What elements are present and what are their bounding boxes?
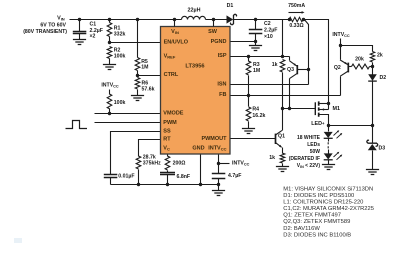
svg-text:1k: 1k	[272, 62, 278, 68]
capacitor C1 2.2uF x2	[73, 20, 103, 40]
wire LED rail	[329, 125, 373, 127]
svg-text:18 WHITE: 18 WHITE	[297, 135, 321, 141]
capacitor 6.8nF VC	[160, 173, 190, 185]
wire RT	[139, 140, 161, 157]
svg-text:×2: ×2	[90, 34, 96, 40]
svg-text:D3: D3	[379, 145, 386, 151]
node junction dot C2	[254, 18, 257, 21]
svg-text:VIN: VIN	[57, 15, 65, 21]
svg-text:INTVCC: INTVCC	[332, 32, 350, 38]
svg-text:750mA: 750mA	[288, 3, 305, 9]
transistor Q2 FMMT589	[334, 46, 352, 77]
pin RT label	[163, 137, 171, 143]
wire LED dashed	[327, 139, 329, 154]
svg-text:LT3956: LT3956	[185, 63, 204, 69]
svg-text:332k: 332k	[114, 31, 126, 37]
ground R4	[242, 129, 255, 134]
svg-text:(80V TRANSIENT): (80V TRANSIENT)	[23, 29, 67, 35]
svg-text:Q2,Q3: ZETEX FMMT589: Q2,Q3: ZETEX FMMT589	[283, 219, 350, 225]
wire VC pin stub	[167, 155, 169, 157]
svg-text:VIN: VIN	[171, 29, 179, 35]
ground R6	[131, 96, 144, 101]
ground LED string	[322, 160, 335, 170]
wire INTVCC stub label	[219, 160, 250, 166]
svg-text:INTVCC: INTVCC	[232, 160, 250, 166]
node junction dot INTVCC Q2	[339, 44, 342, 47]
node junction dot R5 rail	[136, 18, 139, 21]
wire INTVCC pin down	[218, 155, 220, 164]
svg-text:C1,C2: MURATA GRM42-2X7R225: C1,C2: MURATA GRM42-2X7R225	[283, 206, 374, 212]
svg-text:2.2µF: 2.2µF	[264, 28, 277, 34]
node junction dot R3-R4 FB	[247, 94, 250, 97]
svg-text:100k: 100k	[114, 54, 126, 60]
svg-text:LED+: LED+	[311, 120, 325, 127]
svg-text:Q1: ZETEX FMMT497: Q1: ZETEX FMMT497	[283, 213, 341, 219]
wire SW pin top	[213, 20, 215, 27]
op-amp U1 LT3956 block	[161, 27, 231, 155]
svg-text:16.2k: 16.2k	[252, 113, 265, 119]
svg-text:ISN: ISN	[217, 81, 226, 87]
resistor R1 332k	[107, 20, 125, 43]
pin CTRL label	[164, 72, 179, 78]
node junction dot gate rail Q3	[288, 107, 291, 110]
ground C2	[249, 42, 262, 51]
ground C1	[73, 40, 86, 45]
svg-text:50W: 50W	[310, 149, 321, 155]
pin PWM label	[163, 120, 177, 126]
svg-text:100k: 100k	[114, 100, 126, 106]
node junction dot SW pin	[212, 18, 215, 21]
svg-text:SS: SS	[163, 128, 171, 134]
svg-text:C2: C2	[264, 21, 271, 27]
resistor R5 1M	[135, 20, 148, 76]
svg-text:VMODE: VMODE	[163, 111, 184, 117]
svg-text:M1: M1	[333, 106, 341, 112]
svg-text:GND: GND	[192, 145, 204, 151]
node junction dot R1 top	[108, 18, 111, 21]
node junction dot M1 source	[327, 102, 330, 105]
svg-text:1k: 1k	[269, 155, 275, 161]
pin ISP label	[218, 53, 227, 59]
svg-text:LEDs: LEDs	[307, 142, 320, 148]
wire EN/UVLO	[110, 42, 161, 44]
node junction dot VIN pin	[173, 18, 176, 21]
resistor 0.33ohm sense	[289, 17, 304, 29]
svg-text:Q3: Q3	[287, 67, 294, 73]
wire GND pin	[200, 155, 202, 185]
wire sense right to M1 source	[304, 20, 329, 110]
pin SS label	[163, 128, 171, 134]
node junction dot 4.7uF gnd rail	[217, 183, 220, 186]
node junction dot VC gnd rail	[166, 183, 169, 186]
wire ISN	[231, 84, 309, 86]
svg-text:ISP: ISP	[218, 53, 227, 59]
svg-text:(DERATED IF: (DERATED IF	[289, 156, 320, 162]
ground R2	[103, 65, 116, 70]
svg-text:×10: ×10	[264, 34, 273, 40]
diode D3 B1100 schottky	[367, 126, 385, 170]
svg-text:PWMOUT: PWMOUT	[201, 136, 227, 142]
wire sense left down	[283, 20, 290, 57]
node junction dot 2k 20k D2	[371, 65, 374, 68]
resistor R6 57.6k	[135, 78, 154, 96]
resistor 2k	[370, 52, 383, 67]
pin VREF label	[164, 54, 176, 60]
inductor L1 22uH	[182, 7, 206, 19]
wire ISN riser	[304, 19, 309, 85]
svg-text:1M: 1M	[253, 68, 260, 74]
node junction dot EN divider	[108, 41, 111, 44]
svg-text:2k: 2k	[377, 52, 383, 58]
svg-text:L1: COILTRONICS DR125-220: L1: COILTRONICS DR125-220	[283, 200, 363, 206]
wire M1 gate rail	[283, 108, 316, 110]
svg-text:C1: C1	[90, 22, 97, 28]
label notes list	[283, 187, 374, 239]
svg-text:D2: D2	[380, 75, 387, 81]
wire VIN rail	[70, 19, 182, 21]
wire D2 to LED rail	[372, 82, 374, 126]
svg-text:Q1: Q1	[278, 134, 285, 140]
pin VC label	[163, 145, 170, 151]
svg-text:FB: FB	[219, 92, 226, 98]
svg-text:VC: VC	[163, 145, 170, 151]
node INTVCC top right label	[332, 32, 350, 38]
wire ISP	[231, 56, 290, 58]
svg-text:INTVCC: INTVCC	[101, 82, 119, 88]
resistor 20k	[352, 56, 373, 69]
pin ISN label	[217, 81, 226, 87]
wire PWM input	[95, 122, 161, 124]
transistor M1 PMOS	[315, 101, 340, 125]
label LT3956	[185, 63, 204, 69]
svg-text:375kHz: 375kHz	[143, 160, 161, 166]
pin INTVCC bottom label	[208, 145, 226, 151]
transistor Q3 FMMT589	[287, 57, 308, 109]
svg-text:Q2: Q2	[334, 65, 341, 71]
led LED2	[324, 152, 343, 160]
svg-text:R4: R4	[252, 107, 259, 113]
svg-text:D2: BAV116W: D2: BAV116W	[283, 226, 320, 232]
wire CTRL	[138, 75, 161, 77]
pin PGND label	[211, 39, 227, 45]
svg-text:SW: SW	[208, 29, 218, 35]
pin EN/UVLO label	[164, 39, 189, 45]
pin GND label	[192, 145, 204, 151]
node junction dot RT gnd rail	[137, 183, 140, 186]
node junction dot D3 top	[371, 124, 374, 127]
svg-text:VREF: VREF	[164, 54, 176, 60]
svg-text:0.33Ω: 0.33Ω	[289, 23, 303, 29]
resistor R3 1M	[246, 57, 260, 96]
resistor 1k gate pullup	[272, 60, 285, 109]
node LED+ label	[311, 120, 325, 127]
svg-text:VIN < 22V): VIN < 22V)	[297, 163, 321, 169]
wire D1 to sense	[234, 19, 290, 21]
svg-text:RT: RT	[163, 137, 171, 143]
svg-text:PWM: PWM	[163, 120, 177, 126]
svg-text:0.01µF: 0.01µF	[118, 174, 134, 180]
svg-text:R3: R3	[253, 62, 260, 68]
svg-text:20k: 20k	[355, 56, 364, 62]
pin VMODE label	[163, 111, 184, 117]
diode D1 schottky	[227, 3, 237, 25]
svg-text:EN/UVLO: EN/UVLO	[164, 39, 189, 45]
pin SW label	[208, 29, 218, 35]
ground D3	[366, 170, 379, 175]
wire VIN pin top	[174, 20, 176, 27]
svg-text:57.6k: 57.6k	[142, 86, 155, 92]
node junction dot VMODE	[108, 112, 111, 115]
node junction dot sense left	[288, 18, 291, 21]
svg-text:D1: D1	[227, 3, 234, 9]
wire SS	[111, 132, 161, 175]
resistor 200ohm VC	[165, 156, 185, 173]
svg-text:4.7µF: 4.7µF	[228, 173, 241, 179]
node INTVCC pullup label	[101, 82, 119, 88]
wire PWMOUT	[231, 138, 276, 140]
svg-text:INTVCC: INTVCC	[208, 145, 226, 151]
node junction dot gate rail 1k	[281, 107, 284, 110]
svg-text:22µH: 22µH	[188, 7, 201, 13]
node PWM pulse symbol	[66, 121, 88, 129]
wire INTVCC stub down	[340, 39, 342, 46]
wire inductor to D1	[206, 19, 227, 21]
svg-text:PGND: PGND	[211, 39, 227, 45]
ground Q1 1k	[276, 167, 289, 172]
ground bottom rail	[212, 185, 225, 196]
node junction dot INTVCC cap	[217, 162, 220, 165]
node junction dot Q3 base	[307, 68, 310, 71]
svg-text:1M: 1M	[141, 65, 148, 71]
svg-text:D3: DIODES INC B1100/B: D3: DIODES INC B1100/B	[283, 232, 351, 238]
resistor R4 16.2k	[246, 96, 265, 129]
svg-text:CTRL: CTRL	[164, 72, 179, 78]
svg-text:6.8nF: 6.8nF	[177, 174, 191, 180]
capacitor 4.7uF INTVCC	[212, 164, 242, 185]
capacitor C2 2.2uF x10	[249, 20, 278, 42]
capacitor 0.01uF SS	[104, 174, 135, 185]
svg-text:M1: VISHAY SILICONIX Si7113DN: M1: VISHAY SILICONIX Si7113DN	[283, 187, 373, 193]
diode D2 BAV116W	[368, 67, 386, 82]
svg-text:D1: DIODES INC PDS5100: D1: DIODES INC PDS5100	[283, 193, 354, 199]
pin PWMOUT label	[201, 136, 227, 142]
svg-text:200Ω: 200Ω	[173, 160, 186, 166]
resistor 28.7k RT	[136, 155, 161, 185]
resistor R2 100k	[107, 47, 125, 65]
node junction dot VIN-C1	[78, 18, 81, 21]
wire PGND	[231, 41, 256, 43]
label 750mA arrow	[288, 3, 305, 14]
node junction dot LED plus	[327, 124, 330, 127]
pin FB label	[219, 92, 226, 98]
node VIN input label	[23, 15, 67, 35]
wire VMODE	[95, 113, 161, 115]
wire ground rail bottom	[111, 184, 219, 186]
pin VIN label	[171, 29, 179, 35]
node junction dot sense right	[302, 18, 305, 21]
wire Q2 collector to FB	[340, 77, 342, 96]
wire FB	[231, 95, 341, 97]
node logo artifact	[14, 238, 22, 243]
resistor 1k Q1 emitter	[269, 153, 285, 166]
node junction dot CTRL divider	[136, 74, 139, 77]
transistor Q1 FMMT497	[276, 109, 286, 154]
resistor 100k VMODE pullup	[107, 90, 125, 114]
label LED string text	[289, 135, 321, 169]
wire INTVCC to 2k	[341, 46, 373, 52]
svg-text:6V TO 60V: 6V TO 60V	[40, 22, 66, 28]
node junction dot sense-left tap ISP	[281, 55, 284, 58]
node junction dot R3 top	[247, 55, 250, 58]
node junction dot GND rail	[199, 183, 202, 186]
led LED1	[324, 126, 343, 139]
node junction dot PGND C2	[254, 40, 257, 43]
